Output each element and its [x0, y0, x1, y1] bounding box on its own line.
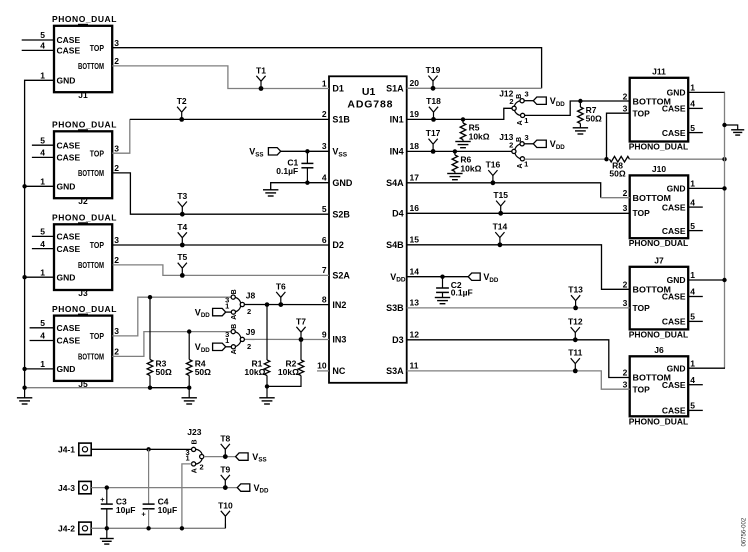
svg-text:T2: T2: [177, 96, 187, 106]
connector J5 PHONO_DUAL: [30, 304, 120, 389]
svg-text:0.1µF: 0.1µF: [451, 287, 473, 297]
svg-text:S2B: S2B: [332, 209, 350, 219]
svg-text:TOP: TOP: [90, 331, 104, 341]
svg-text:S3A: S3A: [386, 366, 404, 376]
svg-text:T14: T14: [493, 222, 508, 232]
wire net D2: J3 TOP pin3 to U1 pin6: [113, 244, 329, 246]
svg-text:CASE: CASE: [57, 232, 81, 242]
svg-text:7: 7: [322, 265, 327, 275]
resistor R2 10kohm: [267, 340, 304, 387]
svg-text:4: 4: [322, 173, 327, 183]
svg-text:3: 3: [114, 143, 119, 153]
svg-text:T12: T12: [568, 317, 583, 327]
svg-text:4: 4: [40, 148, 45, 158]
svg-text:2: 2: [509, 97, 513, 106]
power tag VDD at U1 pin14: [468, 272, 499, 284]
svg-text:1: 1: [322, 78, 327, 88]
wire net IN4: U1 pin18 to jumper J13 common: [407, 150, 512, 152]
svg-text:1: 1: [524, 159, 528, 168]
terminal J4-3: [58, 481, 91, 493]
resistor R8 50ohm: [609, 156, 629, 178]
svg-text:2: 2: [623, 92, 628, 102]
test point T9: [220, 464, 230, 490]
svg-text:PHONO_DUAL: PHONO_DUAL: [629, 238, 689, 248]
svg-text:2: 2: [322, 109, 327, 119]
svg-text:10: 10: [317, 361, 327, 371]
wire net IN2: jumper J8 common to U1 pin8: [244, 304, 329, 306]
svg-text:T8: T8: [220, 433, 230, 443]
svg-text:5: 5: [40, 227, 45, 237]
svg-text:5: 5: [40, 135, 45, 145]
svg-text:A: A: [191, 468, 198, 473]
svg-text:2: 2: [114, 163, 119, 173]
svg-text:1: 1: [690, 179, 695, 189]
svg-text:4: 4: [40, 331, 45, 341]
wire R8 to right ground bus: [630, 157, 727, 161]
svg-text:1: 1: [40, 177, 45, 187]
test point T6: [265, 281, 286, 307]
wire jumper J13 pin1 to R8: [525, 158, 607, 160]
svg-text:5: 5: [690, 401, 695, 411]
svg-text:5: 5: [690, 312, 695, 322]
svg-text:17: 17: [410, 173, 420, 183]
wire J7 GND pin1 to right bus: [688, 278, 727, 282]
svg-text:S2A: S2A: [332, 271, 350, 281]
wire jumper J23 common to VSS tag: [204, 456, 236, 458]
svg-text:10kΩ: 10kΩ: [469, 132, 490, 142]
svg-text:3: 3: [525, 133, 529, 142]
svg-text:CASE: CASE: [57, 244, 81, 254]
svg-text:PHONO_DUAL: PHONO_DUAL: [52, 120, 117, 130]
ground symbol at R5: [455, 142, 470, 148]
wire net VDD: U1 pin14 to VDD tag: [407, 276, 469, 278]
svg-text:1: 1: [40, 71, 45, 81]
svg-text:10µF: 10µF: [158, 505, 178, 515]
svg-text:6: 6: [322, 235, 327, 245]
wire J2 GND pin1 to left bus: [22, 184, 54, 188]
svg-text:J4-2: J4-2: [58, 524, 75, 534]
svg-text:TOP: TOP: [633, 108, 651, 118]
connector J6 PHONO_DUAL: [623, 345, 703, 426]
svg-text:T11: T11: [568, 348, 582, 358]
svg-text:J2: J2: [78, 196, 88, 206]
svg-text:T10: T10: [218, 500, 233, 510]
svg-text:CASE: CASE: [662, 380, 686, 390]
wire net S3B: U1 pin13 to J7 TOP pin3: [407, 307, 630, 309]
resistor R7 50ohm: [578, 99, 602, 128]
svg-text:J6: J6: [654, 345, 664, 355]
resistor R5 10kohm: [460, 117, 490, 141]
svg-text:D4: D4: [392, 209, 404, 219]
test point T16: [486, 160, 501, 186]
wire net S2A: J3 BOTTOM pin2 to U1 pin7: [113, 265, 329, 276]
svg-text:2: 2: [200, 463, 204, 472]
power tag VDD at J8: [195, 307, 232, 319]
svg-text:CASE: CASE: [662, 226, 686, 236]
svg-text:3: 3: [623, 298, 628, 308]
svg-text:T16: T16: [486, 160, 501, 170]
svg-text:J4-1: J4-1: [58, 445, 75, 455]
svg-text:5: 5: [40, 318, 45, 328]
power tag VDD at T9: [237, 483, 269, 495]
svg-text:U1: U1: [362, 86, 376, 98]
jumper J12 header: [499, 89, 528, 126]
svg-text:S3B: S3B: [386, 303, 404, 313]
svg-text:2: 2: [623, 188, 628, 198]
svg-text:4: 4: [40, 239, 45, 249]
svg-text:BOTTOM: BOTTOM: [78, 352, 104, 362]
svg-text:2: 2: [114, 56, 119, 66]
test point T13: [568, 285, 583, 311]
svg-text:PHONO_DUAL: PHONO_DUAL: [629, 416, 689, 426]
svg-text:IN4: IN4: [390, 147, 404, 157]
svg-text:S1A: S1A: [386, 84, 404, 94]
wire J11 GND pin1 to right bus: [688, 91, 725, 93]
svg-text:B: B: [231, 324, 238, 329]
svg-text:CASE: CASE: [57, 140, 81, 150]
IC U1 ADG788: [317, 76, 419, 383]
svg-text:15: 15: [410, 235, 420, 245]
svg-text:5: 5: [322, 204, 327, 214]
svg-text:A: A: [517, 120, 524, 125]
svg-text:T15: T15: [493, 190, 508, 200]
svg-text:18: 18: [410, 141, 420, 151]
svg-text:0.1µF: 0.1µF: [276, 166, 298, 176]
test point T14: [493, 222, 508, 248]
wire J5 TOP pin3 to jumper J8 pin3: [112, 297, 231, 336]
wire net D3: U1 pin12 to J6 BOTTOM pin2: [407, 340, 630, 378]
ground symbol at U1 pin4: [263, 190, 278, 196]
svg-text:5: 5: [690, 123, 695, 133]
jumper J13 header: [499, 132, 528, 169]
svg-text:2: 2: [623, 368, 628, 378]
connector J10 PHONO_DUAL: [623, 164, 703, 248]
svg-text:PHONO_DUAL: PHONO_DUAL: [52, 14, 117, 24]
svg-text:J23: J23: [187, 427, 201, 437]
svg-text:3: 3: [114, 326, 119, 336]
svg-text:2: 2: [114, 347, 119, 357]
svg-text:T17: T17: [426, 128, 441, 138]
test point T8: [220, 433, 230, 459]
svg-text:TOP: TOP: [633, 303, 651, 313]
wire net IN1: U1 pin19 to jumper J12 common: [407, 108, 512, 119]
wire U1 pin10 NC stub: [317, 370, 329, 372]
terminal J4-1: [58, 443, 91, 455]
test point T12: [568, 317, 583, 343]
svg-text:TOP: TOP: [633, 384, 651, 394]
test point T18: [426, 96, 441, 122]
svg-text:CASE: CASE: [662, 104, 686, 114]
svg-text:T3: T3: [177, 191, 187, 201]
svg-text:2: 2: [114, 255, 119, 265]
svg-text:4: 4: [690, 287, 695, 297]
ground symbol at R4: [182, 388, 197, 404]
svg-text:4: 4: [690, 99, 695, 109]
figure number watermark: [742, 517, 748, 546]
svg-text:IN3: IN3: [332, 335, 346, 345]
test point T17: [426, 128, 441, 154]
svg-text:20: 20: [410, 78, 420, 88]
test point T5: [177, 252, 187, 278]
svg-text:1: 1: [186, 453, 190, 462]
svg-text:PHONO_DUAL: PHONO_DUAL: [52, 304, 117, 314]
svg-text:B: B: [516, 137, 523, 142]
svg-text:2: 2: [623, 280, 628, 290]
svg-text:IN1: IN1: [390, 115, 404, 125]
svg-text:S4A: S4A: [386, 178, 404, 188]
wire jumper J12 pin3 to VDD tag: [524, 100, 533, 102]
wire ground tap on right bus: [722, 123, 737, 130]
svg-text:1: 1: [524, 116, 528, 125]
wire J5 GND pin1 to left bus: [22, 367, 54, 371]
wire J4-3 to VDD tag: [91, 487, 237, 489]
svg-text:J4-3: J4-3: [58, 483, 75, 493]
svg-text:8: 8: [322, 294, 327, 304]
svg-text:T19: T19: [426, 65, 441, 75]
ground symbol at C2: [435, 298, 450, 304]
test point T2: [177, 96, 187, 122]
svg-text:T5: T5: [177, 252, 187, 262]
svg-text:CASE: CASE: [662, 317, 686, 327]
wire GND bus left: J1 pin1 down left side: [25, 80, 54, 387]
svg-text:J1: J1: [78, 90, 88, 100]
svg-text:CASE: CASE: [57, 35, 81, 45]
test point T3: [177, 191, 187, 217]
svg-text:13: 13: [410, 298, 420, 308]
wire J10 GND pin1 to right bus: [688, 186, 727, 190]
jumper J23 header: [186, 427, 204, 473]
svg-text:16: 16: [410, 203, 420, 213]
svg-text:BOTTOM: BOTTOM: [78, 168, 104, 178]
wire J6 GND pin1 to right bus: [688, 367, 725, 369]
svg-text:3: 3: [525, 90, 529, 99]
svg-text:3: 3: [322, 141, 327, 151]
connector J7 PHONO_DUAL: [623, 256, 703, 340]
capacitor C4 10uF polarized: [141, 447, 177, 530]
svg-text:GND: GND: [57, 364, 76, 374]
wire net S1A: J1 TOP pin3 to U1 pin20: [112, 48, 541, 89]
svg-text:BOTTOM: BOTTOM: [78, 260, 104, 270]
svg-text:NC: NC: [332, 366, 345, 376]
svg-text:J11: J11: [652, 67, 666, 77]
power tag VDD at J12: [533, 96, 565, 108]
svg-text:1: 1: [690, 270, 695, 280]
svg-text:2: 2: [509, 140, 513, 149]
test point T10: [218, 500, 233, 528]
svg-text:D1: D1: [332, 84, 344, 94]
connector J3 PHONO_DUAL: [32, 213, 119, 298]
svg-text:5: 5: [690, 221, 695, 231]
svg-text:1: 1: [225, 301, 229, 310]
svg-text:A: A: [231, 315, 238, 320]
svg-text:IN2: IN2: [332, 300, 346, 310]
svg-text:CASE: CASE: [662, 406, 686, 416]
svg-text:CASE: CASE: [662, 128, 686, 138]
wire net S2B: J2 BOTTOM pin2 to U1 pin5: [112, 173, 329, 214]
svg-text:1: 1: [40, 267, 45, 277]
svg-text:50Ω: 50Ω: [586, 113, 602, 123]
svg-text:1: 1: [690, 83, 695, 93]
svg-text:BOTTOM: BOTTOM: [78, 61, 104, 71]
svg-text:PHONO_DUAL: PHONO_DUAL: [629, 329, 689, 339]
svg-text:4: 4: [40, 41, 45, 51]
svg-text:2: 2: [247, 307, 251, 316]
ground symbol at R7: [573, 128, 588, 134]
svg-text:T7: T7: [296, 316, 306, 326]
svg-text:1: 1: [690, 358, 695, 368]
test point T15: [493, 190, 508, 216]
wire net S4B: U1 pin15 to J7 BOTTOM pin2: [407, 245, 630, 289]
svg-text:10kΩ: 10kΩ: [278, 367, 299, 377]
svg-text:ADG788: ADG788: [347, 99, 393, 111]
wire net D1: J1 BOTTOM pin2 to U1 pin1: [112, 66, 329, 89]
wire J5 BOTTOM pin2 to jumper J9 pin3: [112, 332, 231, 357]
test point T7: [296, 316, 306, 342]
svg-text:14: 14: [410, 267, 420, 277]
svg-text:J9: J9: [246, 327, 256, 337]
power tag VDD at J13: [533, 139, 565, 151]
wire J4-2 ground rail: [91, 527, 225, 529]
ground symbol at R6: [447, 174, 462, 180]
svg-text:GND: GND: [57, 76, 76, 86]
test point T4: [177, 222, 187, 248]
svg-text:J7: J7: [654, 256, 664, 266]
power tag VSS at T8: [236, 452, 267, 464]
power tag VSS at C1: [249, 147, 281, 159]
svg-text:T18: T18: [426, 96, 441, 106]
terminal J4-2: [58, 522, 91, 534]
svg-text:4: 4: [690, 197, 695, 207]
ground symbol right bus: [731, 130, 744, 135]
wire R3/R4 ground tie to left bus: [22, 386, 189, 390]
svg-text:+: +: [141, 509, 146, 518]
svg-text:3: 3: [623, 103, 628, 113]
svg-text:3: 3: [623, 203, 628, 213]
svg-text:9: 9: [322, 329, 327, 339]
connector J1 PHONO_DUAL: [22, 14, 120, 100]
wire net S1B: J2 TOP pin3 to U1 pin2: [112, 119, 329, 153]
svg-text:J10: J10: [652, 164, 666, 174]
svg-text:B: B: [231, 289, 238, 294]
svg-text:10kΩ: 10kΩ: [244, 367, 265, 377]
wire U1 pin4 GND to ground: [271, 183, 329, 190]
svg-text:CASE: CASE: [57, 336, 81, 346]
svg-text:CASE: CASE: [662, 292, 686, 302]
test point T1: [256, 65, 266, 91]
svg-text:2: 2: [247, 342, 251, 351]
wire net D4: U1 pin16 to J10 TOP pin3: [407, 212, 630, 214]
svg-text:GND: GND: [57, 272, 76, 282]
svg-text:CASE: CASE: [57, 323, 81, 333]
svg-text:CASE: CASE: [662, 202, 686, 212]
connector J2 PHONO_DUAL: [32, 120, 119, 207]
wire right ground bus: [724, 92, 726, 368]
ground symbol at C3 / J4-2: [100, 528, 114, 544]
wire J4-1 to jumper J23 pin3: [91, 448, 191, 450]
svg-text:D3: D3: [392, 335, 404, 345]
svg-text:TOP: TOP: [90, 43, 104, 53]
svg-text:PHONO_DUAL: PHONO_DUAL: [52, 213, 117, 223]
wire jumper J12 pin1 to J11 BOTTOM pin2: [525, 101, 630, 115]
svg-text:A: A: [231, 349, 238, 354]
svg-text:T9: T9: [220, 464, 230, 474]
jumper J9 header: [225, 324, 255, 355]
svg-text:3: 3: [114, 235, 119, 245]
wire net IN3: jumper J9 common to U1 pin9: [244, 338, 329, 340]
capacitor C2 0.1uF: [436, 275, 473, 298]
resistor R6 10kohm: [452, 149, 481, 173]
svg-text:S1B: S1B: [332, 115, 350, 125]
svg-text:50Ω: 50Ω: [195, 367, 211, 377]
svg-text:CASE: CASE: [57, 46, 81, 56]
svg-text:11: 11: [410, 361, 419, 371]
svg-text:1: 1: [40, 359, 45, 369]
svg-text:B: B: [191, 439, 198, 444]
svg-text:GND: GND: [57, 182, 76, 192]
jumper J8 header: [225, 289, 255, 319]
connector J11 PHONO_DUAL: [623, 67, 703, 152]
svg-text:TOP: TOP: [633, 208, 651, 218]
svg-text:50Ω: 50Ω: [156, 367, 172, 377]
svg-text:PHONO_DUAL: PHONO_DUAL: [629, 142, 689, 152]
svg-text:B: B: [516, 94, 523, 99]
svg-text:J8: J8: [246, 290, 256, 300]
svg-text:D2: D2: [332, 240, 344, 250]
wire J11 TOP pin3 down to R8 node: [604, 113, 629, 161]
wire net S4A: U1 pin17 to J10 BOTTOM pin2: [407, 183, 630, 198]
svg-text:TOP: TOP: [90, 148, 104, 158]
test point T11: [568, 348, 582, 374]
svg-text:T4: T4: [177, 222, 187, 232]
svg-text:1: 1: [225, 336, 229, 345]
svg-text:3: 3: [114, 38, 119, 48]
ground symbol left bus: [17, 388, 32, 404]
svg-text:12: 12: [410, 330, 420, 340]
svg-text:5: 5: [40, 30, 45, 40]
svg-text:T6: T6: [276, 281, 286, 291]
svg-text:T13: T13: [568, 285, 583, 295]
svg-text:+: +: [100, 495, 105, 504]
svg-text:TOP: TOP: [90, 240, 104, 250]
svg-text:GND: GND: [332, 178, 353, 188]
svg-text:T1: T1: [256, 65, 266, 75]
svg-text:S4B: S4B: [386, 240, 404, 250]
svg-text:CASE: CASE: [57, 153, 81, 163]
resistor R3 50ohm: [147, 295, 172, 390]
power tag VDD at J9: [195, 342, 232, 354]
svg-text:50Ω: 50Ω: [609, 168, 625, 178]
wire J3 GND pin1 to left bus: [22, 275, 54, 279]
ground symbol at R1: [259, 386, 274, 404]
svg-text:19: 19: [410, 109, 420, 119]
svg-text:A: A: [517, 163, 524, 168]
test point T19: [426, 65, 441, 91]
svg-text:3: 3: [623, 379, 628, 389]
capacitor C1 0.1uF: [276, 149, 313, 185]
svg-text:J3: J3: [78, 288, 88, 298]
svg-text:4: 4: [690, 375, 695, 385]
svg-text:10kΩ: 10kΩ: [460, 164, 481, 174]
wire net S3A: U1 pin11 to J6 TOP pin3: [407, 371, 630, 389]
wire jumper J13 pin3 to VDD tag: [524, 143, 533, 145]
wire net VSS to U1 pin3: [281, 150, 329, 152]
capacitor C3 10uF polarized: [100, 485, 135, 530]
resistor R1 10kohm: [244, 302, 269, 388]
resistor R4 50ohm: [186, 329, 211, 390]
wire jumper J23 pin2 to ground rail: [180, 464, 192, 531]
svg-text:10µF: 10µF: [116, 505, 136, 515]
svg-text:06756-002: 06756-002: [742, 517, 748, 546]
